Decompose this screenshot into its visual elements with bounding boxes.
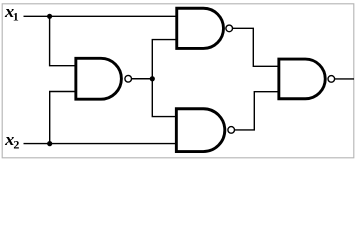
node junction at U1 output — [150, 76, 155, 81]
wire x2 horizontal to bottom gate input — [24, 143, 177, 145]
input label x2 — [4, 130, 19, 151]
nand gate U1 middle-left — [76, 58, 132, 99]
nand gate U4 right — [279, 59, 335, 99]
wire x1 branch down to middle gate top input — [50, 16, 77, 65]
svg-text:1: 1 — [13, 9, 19, 23]
wire U3 output to right gate lower input — [235, 92, 279, 130]
wire junction up to top gate lower input — [152, 40, 176, 79]
wire U1 output to junction — [132, 78, 153, 80]
nand gate U2 top — [177, 8, 233, 48]
wire junction down to bottom gate upper input — [152, 79, 176, 117]
node junction on x1 — [47, 14, 52, 19]
nand gate U3 bottom — [176, 109, 234, 152]
wire U4 output — [335, 78, 354, 80]
input label x1 — [4, 2, 19, 23]
wire x1 horizontal to top gate input — [24, 15, 177, 17]
wire x2 branch up to middle gate bottom input — [50, 92, 77, 144]
wire U2 output to right gate upper input — [233, 28, 279, 66]
node junction on x2 — [47, 141, 52, 146]
svg-text:2: 2 — [13, 137, 19, 151]
